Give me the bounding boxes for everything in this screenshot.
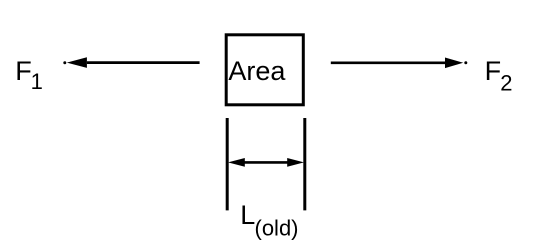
svg-text:L: L [240,200,255,230]
svg-text:F: F [15,56,32,86]
svg-text:1: 1 [31,69,43,94]
svg-text:2: 2 [500,70,512,95]
svg-text:(old): (old) [255,216,299,241]
svg-text:Area: Area [228,56,286,86]
svg-text:F: F [485,56,502,86]
